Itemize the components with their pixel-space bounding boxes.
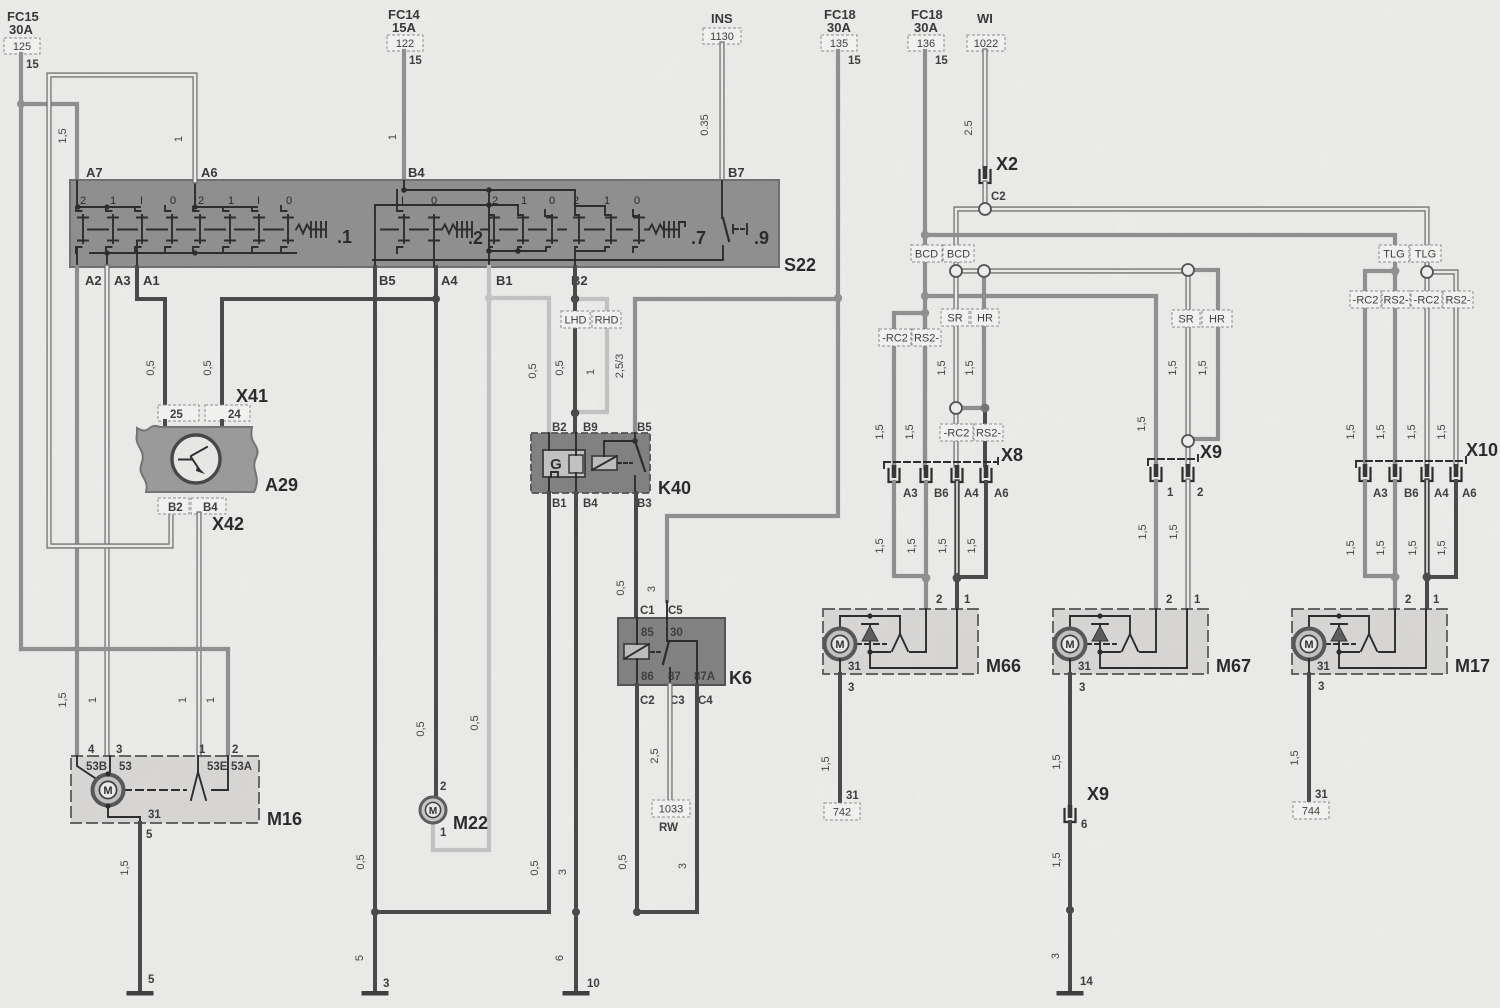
wire gray TLG to X10 B6, size 1.5 — [1375, 271, 1395, 464]
wire X10 A3 joins B6, size 1.5 — [1345, 481, 1395, 576]
splice ring SR feed M66 — [950, 265, 962, 277]
X8 pin A3 — [889, 465, 900, 482]
wire S22 A4 down to washer pump M22 pin 2, size 0.5 — [415, 267, 446, 797]
X9 pin labels — [1167, 487, 1203, 499]
X8 pin labels — [903, 488, 1009, 500]
wire designation labels -RC2 RS2- (fuse136 pair) — [879, 329, 941, 346]
clock module A29 — [137, 426, 299, 495]
node: X10 A3/B6 join — [1391, 573, 1400, 582]
wire S22 A3 down to M16 pin 3, size 1 — [87, 267, 107, 756]
wire X10 A6 joins A4, size 1.5 — [1427, 481, 1456, 577]
X8 pin A4 — [952, 465, 963, 482]
S22 pin stub A6 — [194, 181, 196, 207]
wire K6 C2 down to ground bus, size 0.5 — [617, 685, 637, 912]
fuse FC14 15A feed box 122 — [387, 7, 423, 51]
M17 pin numbers — [1405, 594, 1440, 606]
wire from fuse 136 down (BCD feed), circuit 15 — [925, 51, 948, 468]
switch assembly S22 body — [70, 180, 816, 275]
wire X8 B6 down to M66 pin 2, size 1.5 — [906, 482, 926, 609]
wire ring to X9 pin 2 — [1185, 447, 1190, 464]
wire loop A29 X42 B2 to S22 A6, size 1 — [49, 75, 195, 546]
wire X9/6 to ground, size 1.5 then 3 — [1050, 822, 1093, 991]
rear wiper motor M67 — [1053, 609, 1251, 676]
wire white pair from C2 ring to left BCD drop — [956, 209, 985, 265]
fuse FC18 30A feed box 136 — [908, 7, 944, 51]
wire X8 A3 down joins B6, size 1.5 — [874, 482, 926, 576]
connector X42 — [158, 498, 244, 534]
node: C2 ground bus junction — [633, 908, 641, 916]
splice ring TLG white — [1421, 266, 1433, 278]
wire white SR down to splice, size 1.5 — [936, 271, 956, 403]
wire RHD alternative path around LHD/RHD label, size 1 — [575, 299, 607, 412]
connector INS feed box 1130 — [703, 11, 741, 44]
link between SR ring and HR dot — [962, 406, 981, 410]
S22 internal contact row middle group — [481, 205, 566, 254]
ground connector box 744 — [1293, 802, 1329, 819]
wire S22 A1 to connector X41 pin 25, size 0.5 — [137, 267, 165, 405]
wire K6 C4 down and to ground bus, size 3 — [637, 685, 697, 912]
wire branch S22 B1 to relay K40 pin B2, size 0.5 — [489, 298, 549, 433]
K6 internal switch 30-87/87A — [651, 601, 697, 685]
X10 pin A3 — [1360, 464, 1371, 481]
headlamp wiper motor M17 — [1292, 609, 1490, 676]
wire from fuse 125, circuit 15 — [21, 54, 39, 649]
wire S22 A2 down to wiper motor M16 pin 4, size 1.5 — [57, 267, 77, 756]
X8 pin A6 — [981, 465, 992, 482]
wire designation labels TLG TLG — [1379, 245, 1441, 262]
wire designation labels BCD BCD — [911, 245, 974, 262]
node: fuse136 branch to X9/1 — [921, 292, 929, 300]
splice ring SR/HR feed M67 — [1182, 264, 1194, 276]
S22 top pin labels — [86, 165, 745, 180]
wire gray fuse136 branch to X8 pin A3, size 1.5 — [874, 313, 925, 465]
connector WI feed box 1022 — [967, 11, 1005, 51]
node: B1 branch to K40 B2 — [485, 294, 493, 302]
wire designation labels SR HR (M66) — [941, 309, 999, 326]
wire S22 B5 down to ground, size 0.5 — [354, 267, 389, 991]
S22 pin stub A2 — [76, 247, 78, 267]
node: B5 ground bus junction — [371, 908, 379, 916]
wire from fuse 122 to S22 pin B4, circuit 15, size 1 — [387, 51, 422, 181]
S22 internal contact row group .1 — [75, 204, 352, 255]
X8 pin B6 — [921, 465, 932, 482]
X10 pin A4 — [1422, 464, 1433, 481]
wire X8 A6 down joins A4, size 1.5 — [957, 482, 986, 577]
wire K40 B4 down to ground, size 3 — [554, 493, 600, 991]
S22 switch position labels group .2 and .7 — [401, 195, 640, 207]
connector X10 row — [1356, 440, 1498, 469]
K6 internal relay coil — [624, 618, 649, 685]
wire designation labels SR HR (M67) — [1172, 310, 1232, 327]
wire gray fuse136 to TLG drop — [925, 235, 1395, 266]
wire A29 X42 B4 down to M16 pin 1, size 1 — [177, 514, 199, 756]
node: B4 ground bus junction — [572, 908, 580, 916]
splice ring HR feed M66 — [978, 265, 990, 277]
S22 internal contact row group .7 — [574, 206, 706, 252]
X10 pin A6 — [1451, 464, 1462, 481]
node: B2 LHD/RHD rejoin — [571, 409, 579, 417]
fuse FC18 30A feed box 135 — [821, 7, 857, 51]
connector box 1033 RW — [652, 800, 690, 834]
scan noise overlay (decorative) — [0, 0, 1, 1]
S22 internal bottom bus rail — [373, 246, 723, 260]
connector X41 — [158, 386, 268, 421]
node: fuse 135 / K40 B5 / K6 30 junction — [834, 294, 842, 302]
wire FC15 feed to M16 pin 2, size 1 — [21, 649, 228, 756]
wire X10 A4 to M17 pin 1, size 1.5 — [1407, 481, 1427, 609]
wire WI 1022 to connector X2, size 2.5 — [963, 51, 985, 166]
S22 pin stub A3 — [106, 253, 108, 267]
wire X8 A4 down to M66 pin 1, size 1.5 — [937, 482, 957, 609]
M66 pin numbers — [936, 594, 971, 606]
wire M16 pin 31 to ground, size 1.5 — [119, 823, 155, 991]
wire relay K40 B5 up and over to fuse-135 node, size 2.5/3 — [614, 299, 838, 433]
M67 pin numbers — [1166, 594, 1201, 606]
splice ring SR/HR join M67 — [1182, 435, 1194, 447]
inline connector X9 on ground wire — [1065, 784, 1110, 831]
wire X10 B6 to M17 pin 2, size 1.5 — [1375, 481, 1395, 609]
wire X9/2 to M67 pin 1, size 1.5 — [1168, 481, 1188, 609]
ground under K40 B4 wire — [563, 991, 590, 996]
wire X2/C2 down to splice ring — [982, 183, 987, 203]
S22 pin stub A1 — [136, 241, 138, 267]
washer pump motor M22 — [420, 797, 488, 839]
X10 pin B6 — [1390, 464, 1401, 481]
wire white SR (M67) down, size 1.5 — [1167, 276, 1188, 436]
node: gray TLG dot — [1391, 267, 1400, 276]
X9 pin 2 — [1183, 464, 1194, 481]
K40 pin stubs B2,B9,B1,B4 — [549, 433, 576, 493]
wire K40 B1 down to ground bus, size 0.5 — [375, 493, 549, 912]
ground connector box 742 — [824, 803, 860, 820]
node: junction on FC15 wire — [17, 100, 25, 108]
wire white pair C2 ring to right TLG drop (long top run) — [985, 209, 1427, 267]
wire junction down to relay K6 pin C5/30, size 3 — [646, 298, 838, 601]
ground under M16 — [127, 991, 154, 996]
fuse FC15 30A feed box 125 — [4, 9, 40, 54]
wire INS 1130 to S22 pin B7, size 0.35 (twisted/thin) — [699, 44, 722, 181]
S22 pin stub A7 — [76, 181, 78, 207]
wire S22 B2 down to relay K40 pin B9 (LHD path), size 0.5 — [554, 267, 575, 433]
S22 bottom pin labels — [85, 273, 588, 288]
ground under B5 wire — [362, 991, 389, 996]
splice ring C2 on washer signal — [979, 203, 991, 215]
node: splice on M67 ground wire — [1066, 906, 1074, 914]
X10 pin labels — [1373, 488, 1477, 500]
wire white TLG to X10 A4, size 1.5 — [1406, 278, 1427, 464]
wire branch FC15 to S22 pin A7 (1.5) — [21, 104, 77, 181]
wire gray TLG branch to X10 A3, size 1.5 — [1345, 271, 1395, 464]
wire gray HR down to splice, size 1.5 — [964, 271, 984, 403]
connector X8 row — [884, 445, 1023, 470]
S22 pin stub B4 — [403, 181, 405, 190]
connector X2 — [980, 154, 1019, 203]
node: fuse136 branch to TLG — [921, 231, 929, 239]
wire white SR to X8 pin A4 — [953, 413, 958, 465]
wire X9/1 to M67 pin 2, size 1.5 — [1137, 481, 1156, 609]
wire gray fuse136 to X8 pin B6, size 1.5 — [904, 313, 925, 465]
node: A4 branch to X41/24 — [432, 295, 440, 303]
wire designation labels -RC2 RS2- -RC2 RS2- (X10) — [1350, 291, 1473, 308]
wiper motor M16 — [71, 744, 302, 829]
rear wiper motor M66 — [823, 609, 1021, 676]
S22 internal switch group .9 — [722, 181, 769, 248]
wire K40 B3 down to relay K6 pin C1, size 0.5 — [615, 493, 636, 618]
wire gray HR (M67) loop, size 1.5 — [1194, 270, 1218, 439]
ground under M67 — [1057, 991, 1084, 996]
wire K6 C3 to washer connector 1033 RW, size 2.5 — [649, 685, 670, 800]
wire M67 pin 31 down to inline connector X9, size 1.5 — [1051, 674, 1085, 805]
S22 switch position labels group .1 — [80, 195, 292, 207]
K40 internal controller block G — [543, 450, 585, 477]
node: HR splice dot — [981, 404, 990, 413]
node: B2 LHD/RHD split — [571, 295, 579, 303]
wire gray fuse136 to X9 pin 1 (M67 circuit) — [925, 296, 1156, 465]
node: fuse136 branch to X8/A3 — [921, 309, 929, 317]
wire from fuse 135 down, circuit 15 — [838, 51, 861, 298]
K40 internal relay coil — [592, 441, 633, 470]
relay K40 body — [531, 422, 691, 510]
node: A4/A6 join — [953, 574, 962, 583]
wire white TLG branch to X10 A6, size 1.5 — [1433, 272, 1456, 464]
S22 pin stub B2 — [574, 251, 576, 267]
splice ring SR lower — [950, 402, 962, 414]
wire designation labels -RC2 RS2- above X8 — [940, 424, 1003, 441]
node: A3/B6 join — [922, 574, 931, 583]
wire X41/24 into clock A29 — [220, 421, 224, 437]
connector X9 row — [1148, 442, 1222, 467]
variant labels LHD / RHD — [561, 311, 621, 328]
S22 pin stub A4 — [433, 243, 435, 267]
wire M66 pin 31 to ground connector 742, size 1.5 — [820, 674, 859, 803]
S22 pin stub B1 — [488, 190, 490, 267]
node: X10 A4/A6 join — [1423, 573, 1432, 582]
S22 internal contact row group .2 — [375, 187, 605, 253]
wire S22 B1 down and loop to washer pump M22 pin 1, size 0.5 — [433, 267, 489, 850]
wire white pair between rings and to M67 ring — [962, 268, 1188, 273]
wire dark HR to X8 pin A6 — [983, 408, 987, 465]
S22 pin stub B5 — [374, 205, 376, 267]
X9 pin 1 — [1151, 464, 1162, 481]
K40 internal switch from B5 to B3 — [618, 433, 645, 493]
relay K6 body — [618, 605, 752, 707]
wire X41/25 into clock A29 — [163, 421, 167, 437]
wire M17 pin 31 to ground connector 744, size 1.5 — [1289, 674, 1328, 802]
wire S22 A4 branch to connector X41 pin 24, size 0.5 — [202, 299, 436, 405]
